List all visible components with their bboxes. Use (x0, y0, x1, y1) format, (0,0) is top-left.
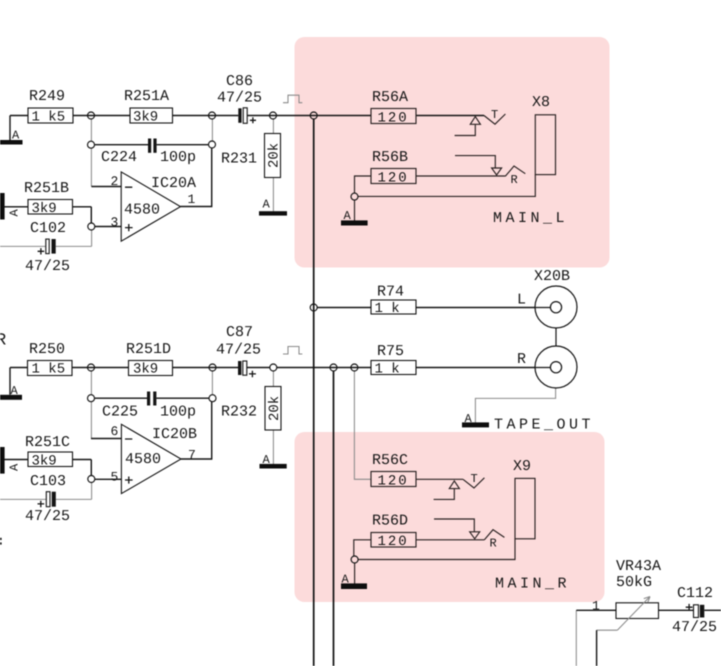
svg-text:20k: 20k (267, 396, 283, 421)
svg-text:C86: C86 (226, 73, 253, 90)
svg-text:R: R (0, 332, 6, 351)
svg-text:50kG: 50kG (616, 574, 652, 591)
svg-text:47/25: 47/25 (672, 619, 717, 636)
svg-text:X20B: X20B (534, 268, 570, 285)
svg-text:A: A (8, 209, 22, 217)
svg-text:R231: R231 (221, 151, 257, 168)
svg-text:1 k5: 1 k5 (32, 362, 66, 378)
svg-text:3: 3 (111, 215, 119, 230)
svg-text:3k9: 3k9 (32, 201, 57, 217)
svg-text:2: 2 (111, 174, 119, 189)
svg-text:1 k: 1 k (375, 361, 400, 377)
svg-text:R56D: R56D (372, 513, 408, 530)
svg-text:R251A: R251A (124, 88, 169, 105)
svg-text:C112: C112 (677, 585, 713, 602)
svg-text:X9: X9 (513, 458, 531, 475)
svg-text:1 k5: 1 k5 (32, 110, 66, 126)
svg-text:A: A (344, 209, 352, 223)
svg-text:R56A: R56A (372, 89, 408, 106)
svg-text:6: 6 (111, 424, 119, 439)
svg-text:R249: R249 (29, 88, 65, 105)
svg-text:3k9: 3k9 (32, 454, 57, 470)
svg-text:3k9: 3k9 (133, 110, 158, 126)
svg-text:R251C: R251C (25, 434, 70, 451)
svg-text:T: T (491, 108, 498, 122)
svg-text:MAIN_L: MAIN_L (493, 210, 568, 227)
svg-text:47/25: 47/25 (25, 508, 70, 525)
svg-text:TAPE_OUT: TAPE_OUT (494, 417, 594, 434)
svg-text:4580: 4580 (125, 451, 161, 468)
svg-text:A: A (342, 573, 350, 587)
svg-text:R: R (511, 173, 518, 187)
svg-text:3k9: 3k9 (133, 362, 158, 378)
svg-text:120: 120 (378, 534, 409, 550)
svg-text:R56B: R56B (372, 149, 408, 166)
svg-text:1: 1 (188, 192, 196, 207)
svg-text:C224: C224 (101, 149, 137, 166)
svg-text:C87: C87 (226, 324, 253, 341)
svg-text:A: A (465, 412, 473, 426)
svg-text:R232: R232 (221, 404, 257, 421)
svg-text:VR43A: VR43A (616, 558, 661, 575)
svg-text:120: 120 (378, 474, 409, 490)
svg-text:47/25: 47/25 (25, 258, 70, 275)
svg-text:1: 1 (592, 599, 600, 614)
svg-text:7: 7 (188, 448, 196, 463)
svg-text:100p: 100p (160, 404, 196, 421)
svg-text:T: T (471, 472, 478, 486)
svg-text:120: 120 (378, 171, 409, 187)
svg-text:R75: R75 (377, 343, 404, 360)
svg-text:R251B: R251B (24, 180, 69, 197)
svg-text:C225: C225 (102, 404, 138, 421)
svg-text:R: R (490, 537, 497, 551)
svg-text:R250: R250 (29, 341, 65, 358)
svg-text:MAIN_R: MAIN_R (495, 576, 570, 593)
svg-text:R251D: R251D (126, 341, 171, 358)
svg-text:C102: C102 (30, 220, 66, 237)
svg-text:A: A (8, 463, 22, 471)
svg-text:X8: X8 (532, 94, 550, 111)
svg-text:A: A (12, 129, 20, 143)
svg-text:R56C: R56C (372, 452, 408, 469)
svg-text:20k: 20k (267, 143, 283, 168)
svg-text:C103: C103 (30, 473, 66, 490)
svg-text:R74: R74 (377, 284, 404, 301)
svg-text:5: 5 (111, 470, 119, 485)
svg-text:A: A (263, 198, 271, 212)
svg-text:1 k: 1 k (375, 301, 400, 317)
svg-text:L: L (517, 292, 526, 309)
svg-text:100p: 100p (160, 149, 196, 166)
svg-text:120: 120 (378, 111, 409, 127)
svg-text:IC20B: IC20B (152, 426, 197, 443)
svg-text:A: A (263, 453, 271, 467)
svg-text:47/25: 47/25 (217, 90, 262, 107)
svg-text:R: R (517, 351, 526, 368)
svg-text:47/25: 47/25 (216, 342, 261, 359)
svg-text:IC20A: IC20A (151, 175, 196, 192)
svg-text:A: A (11, 384, 19, 398)
svg-text:4580: 4580 (124, 202, 160, 219)
